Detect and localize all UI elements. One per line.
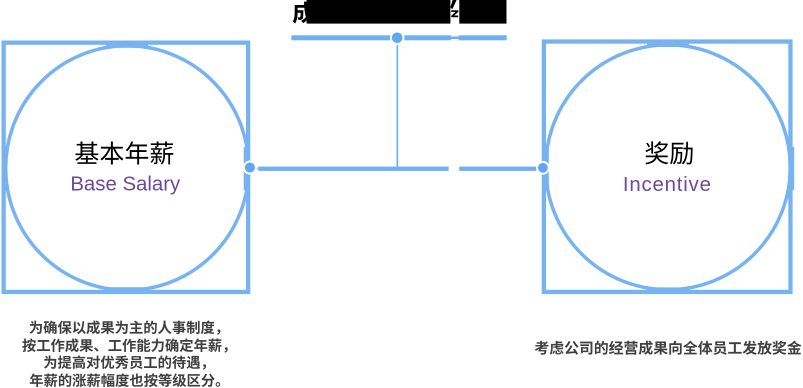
svg-text:Base Salary: Base Salary: [70, 174, 181, 196]
svg-text:Incentive: Incentive: [623, 174, 712, 196]
